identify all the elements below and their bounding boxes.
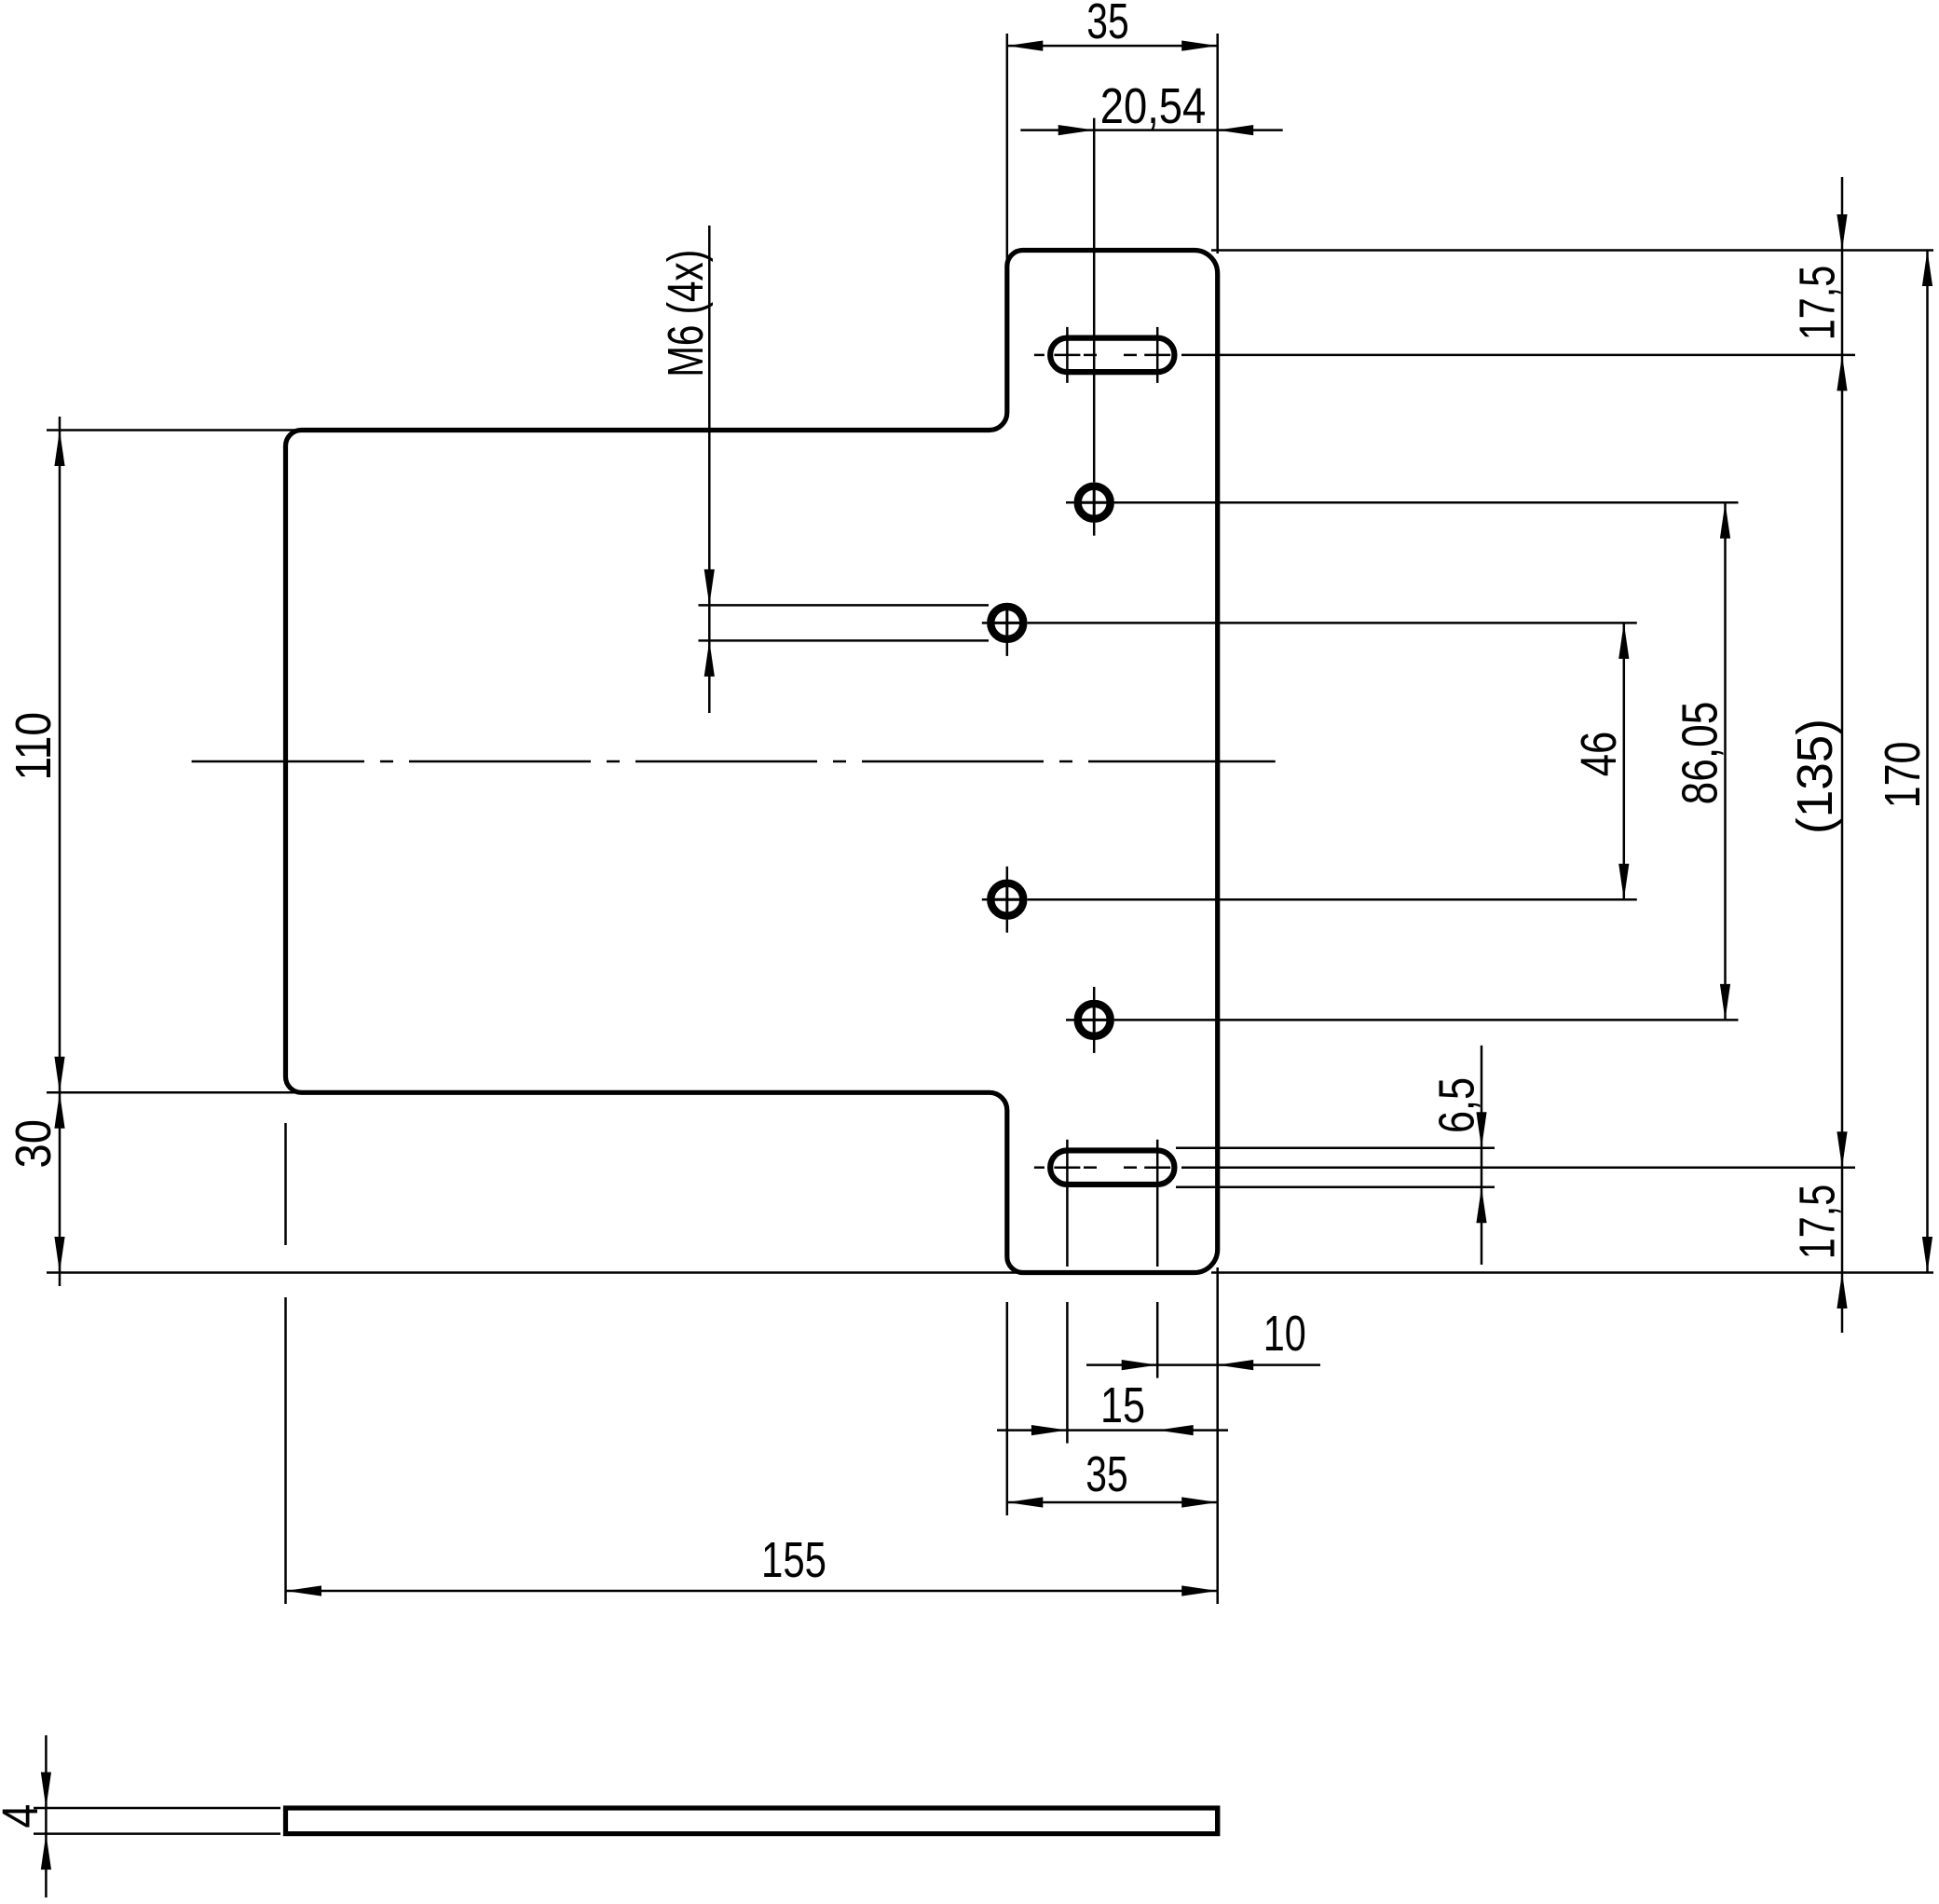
- extension line tab left edge downward: [1006, 1302, 1009, 1515]
- dimension 46 line and arrows: [1623, 623, 1626, 899]
- extension lines for top dimensions (35 / 20,54): [1006, 34, 1009, 280]
- side view plate outline (155x4 section): [286, 1808, 1218, 1834]
- dimension 6,5 line and arrows: [1481, 1046, 1483, 1265]
- svg-text:35: 35: [1086, 1446, 1127, 1502]
- chain dimension line 17,5 (135) 17,5 and arrows: [1841, 177, 1844, 1333]
- svg-text:17,5: 17,5: [1790, 1185, 1846, 1259]
- dimension 110/30 shared line and arrows: [59, 417, 61, 1286]
- top slot (oblong hole 15x6,5): [1050, 338, 1174, 373]
- svg-text:15: 15: [1100, 1377, 1145, 1433]
- extension line bottom slot centerline to right: [1181, 1166, 1855, 1169]
- extension line left edge downward: [284, 1123, 287, 1245]
- hole M6 top (tapped hole 1): [1078, 486, 1111, 519]
- dimension 35 (top) line and arrows: [1007, 45, 1218, 48]
- extension line hole3 centerline to right: [1028, 898, 1637, 901]
- hole M6 upper-middle (tapped hole 2): [990, 607, 1023, 639]
- svg-text:170: 170: [1875, 742, 1931, 809]
- extension line top edge to right: [1211, 249, 1933, 252]
- hole M6 lower-middle (tapped hole 3): [990, 884, 1023, 916]
- svg-text:35: 35: [1086, 0, 1128, 49]
- dimension 15 line and arrows: [997, 1429, 1228, 1431]
- svg-text:4: 4: [0, 1804, 48, 1829]
- dimension 155 line and arrows: [286, 1590, 1218, 1593]
- bottom slot (oblong hole 15x6,5) center marks: [1034, 1166, 1045, 1169]
- hole M6 bottom (tapped hole 4): [1078, 1004, 1111, 1036]
- svg-text:6,5: 6,5: [1429, 1077, 1485, 1133]
- svg-text:10: 10: [1263, 1306, 1306, 1362]
- bottom slot (oblong hole 15x6,5): [1050, 1150, 1174, 1185]
- plate outline (front view): [286, 251, 1218, 1273]
- extension line hole4 centerline to right: [1114, 1019, 1739, 1021]
- dimension 86,05 line and arrows: [1724, 502, 1727, 1020]
- horizontal centerline (dash-dot axis): [192, 760, 364, 763]
- extension line slot left center downward: [1066, 1140, 1069, 1267]
- dimension 20,54 line and arrows: [1020, 129, 1282, 131]
- extension line slot right center downward: [1156, 1140, 1159, 1267]
- svg-text:155: 155: [761, 1532, 826, 1588]
- dimension 35 (bottom) line and arrows: [1007, 1501, 1218, 1504]
- svg-text:30: 30: [6, 1119, 61, 1169]
- extension lines left (left-edge top, step, bottom): [47, 429, 302, 431]
- top slot (oblong hole 15x6,5) center marks: [1066, 327, 1069, 383]
- extension line hole2 centerline to right: [1028, 622, 1637, 624]
- dimension 170 line and arrows: [1926, 251, 1929, 1273]
- svg-text:(135): (135): [1787, 719, 1843, 834]
- extension line plate right edge downward: [1216, 1267, 1219, 1604]
- extension line hole1 centerline to right: [1114, 501, 1739, 504]
- svg-text:20,54: 20,54: [1100, 78, 1206, 134]
- svg-text:17,5: 17,5: [1790, 266, 1846, 340]
- svg-text:46: 46: [1571, 732, 1627, 777]
- extension line top slot centerline to right: [1181, 354, 1855, 357]
- dimension 4 line and arrows: [45, 1735, 48, 1897]
- M6 (4x) callout lines: [708, 226, 711, 713]
- svg-text:86,05: 86,05: [1673, 702, 1728, 805]
- svg-text:M6 (4x): M6 (4x): [658, 250, 714, 377]
- extension line bottom edge to right: [1211, 1271, 1933, 1274]
- svg-text:110: 110: [6, 712, 61, 781]
- dimension 10 line and arrows: [1086, 1363, 1320, 1366]
- side view extension lines to left: [34, 1807, 280, 1810]
- extension lines bottom slot edges for 6,5: [1176, 1146, 1495, 1149]
